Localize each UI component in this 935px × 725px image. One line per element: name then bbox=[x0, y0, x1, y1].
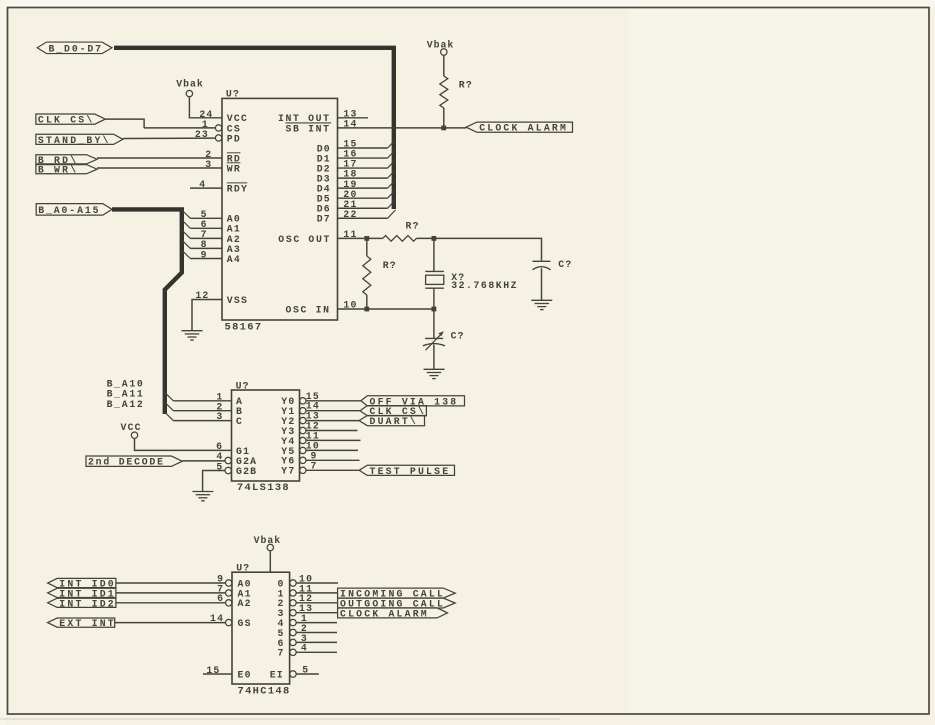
U1 pin 13 INT OUT bbox=[278, 108, 368, 124]
U3 pin 5 EI bbox=[270, 665, 319, 681]
svg-text:RDY: RDY bbox=[227, 184, 248, 195]
U3 pin 10 input 0 bbox=[278, 573, 339, 589]
U3 pin 1 input 4 bbox=[278, 613, 338, 629]
wire crystal node to C right bbox=[434, 238, 542, 260]
bus wire B_D0-D7 bbox=[114, 48, 394, 209]
power Vbak (pullup R) bbox=[427, 40, 455, 56]
svg-text:C?: C? bbox=[558, 259, 572, 270]
svg-text:B_D0-D7: B_D0-D7 bbox=[49, 43, 103, 54]
U1 pin 6 A1 bbox=[190, 219, 241, 235]
U1 pin 7 A2 bbox=[190, 229, 241, 245]
resistor R? pullup bbox=[440, 76, 473, 108]
svg-text:VSS: VSS bbox=[227, 295, 248, 306]
power Vbak (U1 pin 24) bbox=[176, 78, 204, 96]
U1 pin 24 VCC bbox=[199, 109, 248, 124]
U1 pin 2 RD bbox=[97, 149, 241, 164]
svg-text:U?: U? bbox=[236, 380, 250, 391]
junction OSC OUT left node bbox=[364, 236, 369, 241]
wire Vbak to U3 top bbox=[269, 551, 271, 572]
U1 pin 17 D2 with bus stub bbox=[317, 159, 396, 175]
wire R to SB INT net bbox=[443, 108, 445, 128]
U2 pin 15 output Y0 bbox=[281, 391, 320, 407]
svg-text:32.768KHZ: 32.768KHZ bbox=[451, 280, 518, 291]
svg-text:DUART\: DUART\ bbox=[370, 416, 418, 427]
net label DUART\ bbox=[359, 416, 424, 428]
U1 pin 23 PD bbox=[195, 129, 241, 144]
svg-text:U?: U? bbox=[226, 89, 240, 100]
svg-text:STAND_BY\: STAND_BY\ bbox=[38, 135, 111, 146]
op IC U1 58167 body bbox=[222, 89, 338, 334]
U3 pin 15 E0 bbox=[203, 665, 252, 681]
U2 pin 12 output Y3 bbox=[281, 421, 357, 437]
wire U2 Y2 to label bbox=[306, 420, 359, 422]
net label TEST PULSE bbox=[359, 465, 454, 477]
U3 pin 14 GS bbox=[210, 613, 252, 629]
net label CLOCK ALARM bbox=[466, 122, 573, 134]
wire Vbak to U1 VCC bbox=[189, 97, 222, 118]
wire INT ID1 to U3 A1 bbox=[116, 592, 225, 594]
U1 pin 21 D6 with bus stub bbox=[317, 199, 396, 215]
wire U1 SB INT to CLOCK ALARM bbox=[338, 127, 467, 129]
wire crystal node to trimmer bbox=[433, 309, 435, 338]
wire U1 OSC OUT node bbox=[338, 237, 383, 239]
svg-text:OSC OUT: OSC OUT bbox=[278, 234, 331, 245]
wire U2 Y7 to label bbox=[306, 469, 359, 471]
U1 pin 22 D7 with bus stub bbox=[317, 209, 396, 225]
svg-text:E0: E0 bbox=[238, 669, 252, 680]
bus entry to U1 A2 bbox=[182, 230, 191, 238]
svg-text:5: 5 bbox=[302, 665, 309, 676]
net label INT ID0 bbox=[48, 578, 116, 589]
net label B_RD\ bbox=[36, 155, 97, 166]
svg-text:15: 15 bbox=[206, 665, 220, 676]
wire U3 input3 to label bbox=[296, 612, 337, 614]
svg-text:4: 4 bbox=[216, 451, 223, 462]
junction crystal bottom node bbox=[432, 307, 437, 312]
U2 pin 10 output Y5 bbox=[281, 440, 358, 456]
U2 pin 14 output Y1 bbox=[281, 401, 320, 417]
svg-text:22: 22 bbox=[343, 209, 357, 220]
net label EXT INT bbox=[48, 618, 116, 629]
net label INT ID1 bbox=[48, 588, 116, 599]
svg-text:G2B: G2B bbox=[236, 466, 257, 477]
wire R to crystal node bbox=[416, 237, 434, 239]
U2 pin 6 G1 bbox=[216, 441, 250, 457]
wire EXT INT to U3 GS bbox=[115, 622, 226, 624]
svg-text:Vbak: Vbak bbox=[254, 535, 282, 546]
wire U2 Y1 to label bbox=[306, 410, 360, 412]
wire U1 VSS to ground bbox=[192, 300, 222, 331]
svg-text:74LS138: 74LS138 bbox=[237, 482, 290, 494]
bus wire B_A0-A15 bbox=[112, 209, 182, 414]
U3 pin 9 A0 bbox=[217, 573, 252, 589]
net label INCOMING CALL bbox=[338, 588, 456, 600]
ground at U2 G2B bbox=[192, 492, 213, 501]
svg-text:OSC IN: OSC IN bbox=[286, 304, 331, 315]
U3 pin 12 input 2 bbox=[278, 593, 314, 609]
wire U1 OSC IN line bbox=[338, 308, 434, 310]
svg-text:3: 3 bbox=[216, 411, 223, 422]
bus entry to U1 A4 bbox=[182, 250, 191, 258]
U3 pin 4 input 7 bbox=[278, 643, 338, 659]
svg-text:TEST PULSE: TEST PULSE bbox=[370, 466, 451, 477]
wire Vbak to R bbox=[443, 55, 445, 76]
wire INT ID0 to U3 A0 bbox=[116, 582, 225, 584]
svg-text:3: 3 bbox=[205, 159, 212, 170]
wire INT ID2 to U3 A2 bbox=[116, 602, 225, 604]
bus entry to U1 A3 bbox=[182, 240, 191, 248]
U2 pin 3 input C bbox=[165, 411, 243, 427]
svg-text:EI: EI bbox=[270, 669, 284, 680]
net label CLOCK ALARM (U3) bbox=[338, 608, 448, 620]
U2 pin 2 input B bbox=[165, 401, 243, 417]
net label B_WR\ bbox=[36, 165, 97, 176]
svg-text:U?: U? bbox=[236, 562, 250, 573]
capacitor C? (right) bbox=[533, 259, 573, 270]
wire C right to ground bbox=[541, 268, 543, 300]
crystal X1 32.768KHZ bbox=[425, 238, 518, 309]
bus label B_A0-A15 bbox=[36, 204, 112, 216]
resistor R? parallel (vertical) bbox=[363, 238, 397, 309]
wire U3 input2 to label bbox=[296, 602, 337, 604]
wire STAND_BY to U1 PD bbox=[123, 137, 215, 139]
svg-text:9: 9 bbox=[201, 249, 208, 260]
U3 pin 3 input 6 bbox=[278, 633, 338, 649]
U1 pin 12 VSS bbox=[195, 290, 248, 306]
net label CLK CS\ bbox=[36, 114, 105, 126]
U2 pin 11 output Y4 bbox=[281, 430, 360, 446]
U2 pin 1 input A bbox=[165, 391, 243, 407]
U3 pin 6 A2 bbox=[217, 593, 252, 609]
svg-text:A4: A4 bbox=[227, 254, 241, 265]
net label INT ID2 bbox=[48, 598, 116, 609]
wire U2 Y0 to label bbox=[306, 400, 361, 402]
svg-text:D7: D7 bbox=[317, 214, 331, 225]
svg-text:Vbak: Vbak bbox=[427, 40, 455, 51]
U1 pin 1 CS bbox=[144, 119, 241, 134]
bus entry to U1 A1 bbox=[182, 220, 191, 228]
svg-text:B_WR\: B_WR\ bbox=[38, 165, 78, 176]
svg-text:CLOCK ALARM: CLOCK ALARM bbox=[340, 608, 429, 619]
svg-text:Y7: Y7 bbox=[281, 466, 295, 477]
power VCC (U2 G1) bbox=[121, 422, 142, 439]
U2 pin 9 output Y6 bbox=[281, 450, 359, 466]
svg-text:74HC148: 74HC148 bbox=[238, 685, 291, 697]
U1 pin 9 A4 bbox=[190, 249, 241, 265]
net stub labels B_A10 B_A11 B_A12 bbox=[107, 378, 145, 410]
net label OFF VIA 138 bbox=[361, 396, 465, 408]
svg-text:R?: R? bbox=[459, 79, 473, 90]
U2 pin 4 G2A bbox=[216, 451, 257, 467]
resistor R? series (OSC OUT) bbox=[383, 220, 420, 241]
scan artifact line bottom bbox=[0, 718, 560, 720]
wire trimmer to ground bbox=[433, 345, 435, 369]
U1 pin 8 A3 bbox=[190, 239, 241, 255]
svg-text:C?: C? bbox=[451, 331, 465, 342]
svg-text:R?: R? bbox=[383, 260, 397, 271]
svg-text:PD: PD bbox=[227, 133, 241, 144]
U1 pin 3 WR bbox=[97, 159, 241, 174]
bus label B_D0-D7 bbox=[37, 42, 112, 54]
svg-text:Vbak: Vbak bbox=[176, 78, 204, 89]
bus entry to U1 A0 bbox=[182, 210, 191, 218]
svg-text:CLOCK ALARM: CLOCK ALARM bbox=[479, 123, 568, 134]
ground at trimmer bbox=[424, 369, 445, 378]
svg-text:EXT INT: EXT INT bbox=[59, 618, 116, 629]
IC U3 74HC148 body bbox=[232, 562, 291, 697]
wire 2nd DECODE to U2 G2A bbox=[182, 460, 225, 462]
U3 pin 7 A1 bbox=[217, 583, 252, 599]
U1 pin 19 D4 with bus stub bbox=[317, 179, 396, 195]
U3 pin 2 input 5 bbox=[278, 623, 338, 639]
wire VCC to U2 G1 bbox=[135, 438, 232, 450]
U1 pin 20 D5 with bus stub bbox=[317, 189, 396, 205]
U1 pin 5 A0 bbox=[190, 209, 241, 225]
U2 pin 7 output Y7 bbox=[281, 460, 317, 476]
svg-text:58167: 58167 bbox=[225, 321, 263, 333]
net label OUTGOING CALL bbox=[338, 598, 456, 610]
svg-text:4: 4 bbox=[199, 179, 206, 190]
junction OSC IN left node bbox=[364, 307, 369, 312]
net label STAND_BY\ bbox=[36, 134, 123, 146]
U1 pin 18 D3 with bus stub bbox=[317, 169, 396, 185]
net label 2nd DECODE bbox=[86, 456, 182, 468]
svg-text:SB INT: SB INT bbox=[286, 123, 331, 134]
U2 pin 5 G2B bbox=[216, 462, 257, 477]
svg-text:VCC: VCC bbox=[121, 422, 142, 433]
svg-text:2nd DECODE: 2nd DECODE bbox=[88, 457, 165, 468]
junction crystal top node bbox=[432, 236, 437, 241]
wire CLK CS to U1 CS bbox=[105, 119, 144, 128]
U1 pin 4 RDY bbox=[190, 179, 248, 194]
net label CLK CS\ (U2 Y1) bbox=[360, 406, 426, 418]
power Vbak (U3) bbox=[254, 535, 282, 551]
wire U3 input1 to label bbox=[296, 592, 337, 594]
ground at C right bbox=[531, 300, 552, 309]
svg-text:A2: A2 bbox=[238, 598, 252, 609]
U3 pin 13 input 3 bbox=[278, 603, 314, 619]
U1 pin 11 OSC OUT bbox=[278, 229, 357, 245]
svg-text:7: 7 bbox=[278, 648, 285, 659]
ground at U1 VSS bbox=[182, 331, 203, 340]
U1 pin 15 D0 with bus stub bbox=[317, 139, 396, 155]
junction SB INT / CLOCK ALARM bbox=[441, 126, 446, 131]
svg-text:INT ID2: INT ID2 bbox=[59, 598, 116, 609]
IC U2 74LS138 body bbox=[232, 380, 300, 494]
svg-text:C: C bbox=[236, 416, 243, 427]
svg-text:CLK CS\: CLK CS\ bbox=[38, 115, 95, 126]
svg-text:B_A12: B_A12 bbox=[107, 399, 145, 410]
svg-text:GS: GS bbox=[238, 618, 252, 629]
U3 pin 11 input 1 bbox=[278, 583, 314, 599]
U1 pin 14 SB INT bbox=[286, 119, 358, 135]
U1 pin 16 D1 with bus stub bbox=[317, 149, 396, 165]
svg-text:WR: WR bbox=[227, 163, 241, 174]
trimmer capacitor C? (variable) bbox=[423, 331, 465, 351]
svg-text:B_A0-A15: B_A0-A15 bbox=[38, 205, 100, 216]
U1 pin 10 OSC IN bbox=[286, 300, 358, 316]
wire U2 G2B to ground bbox=[203, 471, 225, 492]
U2 pin 13 output Y2 bbox=[281, 411, 320, 427]
svg-text:R?: R? bbox=[406, 220, 420, 231]
